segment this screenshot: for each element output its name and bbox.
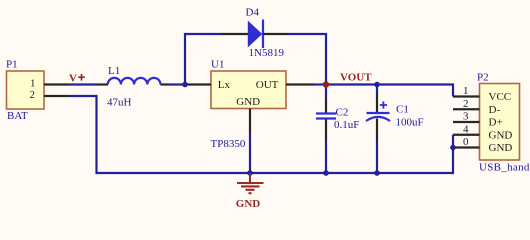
- pin stub Lx: [188, 83, 212, 85]
- pin stub left of D4: [222, 33, 248, 35]
- svg-text:V: V: [69, 73, 77, 85]
- capacitor C2 bottom plate: [316, 117, 336, 119]
- svg-text:VCC: VCC: [489, 91, 512, 103]
- wire C2 to rail: [325, 142, 327, 173]
- svg-text:GND: GND: [489, 129, 513, 141]
- svg-text:USB_hand: USB_hand: [479, 162, 530, 174]
- pin stub P2-2: [453, 108, 480, 110]
- pin 1 stub of P1: [44, 83, 69, 85]
- svg-text:VOUT: VOUT: [340, 72, 372, 84]
- wire node A up and right to D4: [185, 34, 222, 85]
- svg-text:BAT: BAT: [7, 110, 28, 122]
- svg-text:47uH: 47uH: [107, 97, 132, 109]
- junction dot C2 at rail: [323, 170, 329, 176]
- pin stub bottom of C1: [376, 119, 378, 143]
- wire D4 down to VOUT node: [287, 34, 326, 85]
- svg-text:OUT: OUT: [256, 79, 279, 91]
- pin stub top of C1: [376, 94, 378, 112]
- pin stub P2-4: [453, 134, 480, 136]
- pin stub P2-0: [453, 146, 480, 148]
- svg-text:C2: C2: [336, 107, 349, 119]
- junction dot C1 at rail: [374, 170, 380, 176]
- pin stub P2-1: [453, 95, 480, 97]
- wire VOUT node down to C2: [325, 85, 327, 99]
- pin stub GND of U1: [249, 109, 251, 135]
- ground symbol: [237, 173, 264, 193]
- svg-text:P1: P1: [6, 59, 18, 71]
- pin stub left of L1: [97, 83, 108, 85]
- svg-text:P2: P2: [477, 72, 489, 84]
- capacitor C1 top plate: [367, 112, 390, 114]
- svg-text:1: 1: [463, 85, 469, 97]
- svg-text:3: 3: [463, 111, 469, 123]
- diode D4 cathode bar: [262, 20, 264, 49]
- svg-text:GND: GND: [489, 142, 513, 154]
- wire C1 node down: [376, 85, 378, 95]
- svg-text:U1: U1: [211, 59, 224, 71]
- wire OUT to VOUT node: [314, 83, 327, 85]
- svg-text:L1: L1: [108, 65, 120, 77]
- svg-text:C1: C1: [396, 104, 409, 116]
- wire VOUT to P2 pin1: [326, 85, 453, 97]
- junction dot P2 pin0: [450, 145, 456, 151]
- junction dot U1 GND at rail: [247, 170, 253, 176]
- pin stub right of L1: [161, 83, 171, 85]
- svg-text:1: 1: [30, 78, 36, 90]
- pin 2 stub of P1: [44, 95, 69, 97]
- svg-text:D4: D4: [246, 7, 260, 19]
- wire U1 GND to rail: [249, 134, 251, 173]
- svg-text:GND: GND: [236, 96, 260, 108]
- pin stub P2-3: [453, 121, 480, 123]
- node VOUT junction dot: [323, 81, 329, 87]
- node C1 junction dot: [374, 82, 380, 88]
- ground rail wire from P1 pin2 to P2: [69, 96, 453, 173]
- capacitor C1 plus sign: [380, 101, 387, 108]
- svg-text:0: 0: [463, 136, 469, 148]
- diode D4 triangle: [248, 22, 261, 46]
- svg-text:2: 2: [463, 98, 469, 110]
- capacitor C1 bottom plate arc: [366, 117, 390, 121]
- pin stub bottom of C2: [325, 120, 327, 143]
- svg-text:TP8350: TP8350: [211, 138, 246, 150]
- svg-text:100uF: 100uF: [396, 117, 424, 129]
- wire pin1 to L1: [69, 83, 97, 85]
- capacitor C2 top plate: [316, 112, 336, 114]
- svg-text:0.1uF: 0.1uF: [334, 119, 359, 131]
- svg-text:D+: D+: [489, 117, 503, 129]
- svg-text:1N5819: 1N5819: [249, 47, 285, 59]
- pin stub OUT: [286, 83, 314, 85]
- inductor L1 coil: [108, 78, 161, 85]
- node A junction dot: [182, 82, 188, 88]
- connector P1: [7, 71, 45, 109]
- pin stub top of C2: [325, 98, 327, 113]
- svg-text:2: 2: [30, 89, 36, 101]
- pin stub right of D4: [264, 33, 288, 35]
- wire L1 to node A: [170, 83, 187, 85]
- connector P2 body: [480, 84, 520, 161]
- svg-text:4: 4: [463, 123, 469, 135]
- svg-text:Lx: Lx: [218, 79, 231, 91]
- svg-text:GND: GND: [236, 198, 261, 210]
- svg-text:D-: D-: [489, 104, 501, 116]
- wire C1 to rail: [376, 142, 378, 173]
- IC U1 body: [211, 71, 286, 109]
